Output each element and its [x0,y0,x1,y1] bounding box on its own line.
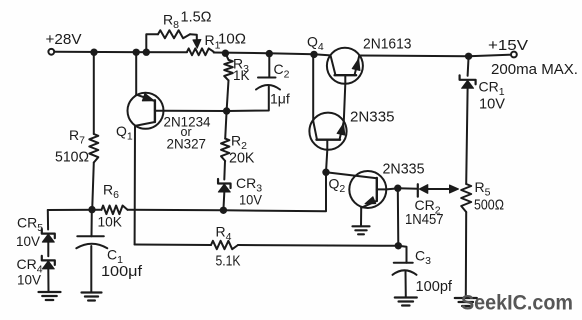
wire Q2 emitter down [360,208,362,227]
svg-text:2N327: 2N327 [167,136,207,152]
svg-text:2N1613: 2N1613 [363,37,412,53]
arrow R5 wiper [450,185,459,193]
ground C3 [395,296,417,298]
svg-text:SeekIC.com: SeekIC.com [461,291,573,315]
ground C1 [82,291,102,293]
resistor R6 [102,206,128,215]
svg-text:10K: 10K [98,214,123,230]
ground Q2 [353,225,370,227]
junction CR1/+15V rail [465,53,472,60]
wire R7 bottom [92,163,94,210]
wire C1 top [91,210,93,237]
svg-text:5.1K: 5.1K [216,254,241,270]
wire CR1-R5 [466,89,467,184]
svg-text:500Ω: 500Ω [474,198,504,214]
wire Q1 emitter from rail [135,52,137,95]
wire R8 left lead [146,34,158,52]
resistor R7 [89,134,98,163]
svg-text:10V: 10V [239,192,263,208]
wire rail R1-to-Q4 [214,53,331,56]
svg-text:510Ω: 510Ω [55,149,89,166]
junction Q1-base/R3/R2/C2 [223,107,230,114]
wire Q3 collector up [312,54,314,121]
wire Q4 base to Q3 [344,84,346,121]
junction R3/rail [222,50,229,57]
wire reference line left [48,209,102,211]
zener CR4 [42,256,55,265]
wire R2 top [225,111,226,139]
transistor Q4 [327,48,363,84]
svg-text:100μf: 100μf [101,264,143,280]
junction R7/rail [90,49,97,56]
wire Q2 base to node [386,188,398,189]
wire node to CR2 [398,187,418,190]
ground CR4 [39,291,61,293]
svg-text:2N335: 2N335 [350,110,395,126]
wire R4 line right [238,244,398,247]
svg-text:1μf: 1μf [270,91,290,107]
wire CR1 top [468,56,469,76]
capacitor C1 [77,235,104,237]
junction CR3/ref line [220,207,227,214]
wire C2 top [268,54,270,77]
junction R7/R6/C1 [88,206,95,213]
resistor R8 [158,30,190,38]
transistor Q3 [309,113,346,150]
junction Q3-collector/rail [310,51,317,58]
transistor Q2 [326,171,386,208]
resistor R2 [221,139,229,161]
wire CR5-CR4 [47,243,49,257]
wire R2-CR3 [223,161,226,180]
junction Q2-base/CR2 [394,185,401,192]
zener CR5 [42,229,55,238]
svg-text:1K: 1K [233,68,250,83]
wire Q3 base down [326,150,327,172]
wire reference line right [128,172,327,211]
wire R3 top [225,53,228,60]
svg-text:200ma MAX.: 200ma MAX. [491,61,578,78]
transistor Q1 [128,93,227,129]
svg-text:20K: 20K [229,151,255,167]
resistor R1 [187,48,214,55]
junction Q1/rail [133,49,140,56]
wire R3 bottom [227,80,229,111]
wire CR3 bottom [222,193,225,211]
terminal +15V [511,52,517,58]
resistor R4 [211,241,238,249]
arrow R8 wiper onto R1 [193,40,201,49]
wire R5 bottom [465,212,467,298]
svg-text:10V: 10V [16,233,41,249]
ground R5 [455,297,477,299]
wire R4 line left [135,244,211,247]
zener CR1 [460,75,476,84]
wire to CR5 [47,210,49,230]
svg-text:1N457: 1N457 [405,212,444,228]
wire C2 bottom [227,87,269,112]
svg-text:+28V: +28V [46,32,82,48]
resistor R5 [461,184,471,212]
svg-text:10Ω: 10Ω [218,32,246,48]
svg-text:10V: 10V [17,272,42,288]
wire CR2 to R5 [428,188,450,190]
resistor R3 [224,60,233,81]
zener CR3 [218,179,231,188]
junction R8/rail [143,49,150,56]
svg-text:10V: 10V [479,96,505,113]
wire R8 right lead [190,34,197,41]
wire R7 top [93,52,95,134]
junction C2/rail [266,50,273,57]
capacitor C3 [394,262,413,264]
svg-text:2N335: 2N335 [383,162,425,178]
wire CR4-ground [47,269,49,292]
terminal +28V [48,49,54,55]
wire C3 top lead [398,246,406,263]
svg-text:+15V: +15V [488,37,528,54]
wire Q1 collector down [134,126,136,245]
svg-text:1.5Ω: 1.5Ω [181,10,212,26]
junction R4/C3 [395,242,402,249]
svg-text:100pf: 100pf [416,279,453,295]
diode CR2 [418,184,428,196]
wire Q2base node down [397,188,400,246]
wire C3 bottom [405,272,407,298]
wire C1 bottom [90,246,92,293]
junction Q2-collector/Q3-base [322,169,329,176]
wire +28V rail [54,51,187,54]
wire +15V rail [359,55,511,57]
capacitor C2 [258,77,276,79]
